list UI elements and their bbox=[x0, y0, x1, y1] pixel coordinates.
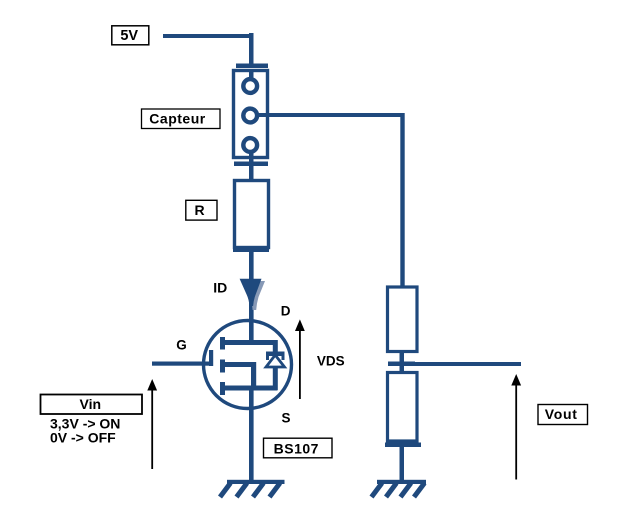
wire drain (resistor to MOSFET) bbox=[249, 250, 254, 345]
svg-text:Vin: Vin bbox=[80, 396, 102, 412]
wire source (MOSFET to ground) bbox=[249, 390, 254, 481]
wire divider to ground bbox=[400, 445, 405, 481]
label Vout bbox=[538, 405, 588, 425]
arrow VDS bbox=[295, 319, 305, 399]
connector pin 2 circle bbox=[243, 109, 257, 123]
resistor R body bbox=[235, 181, 269, 248]
body diode cathode bar bbox=[266, 352, 285, 357]
resistor divider lower body bbox=[388, 373, 418, 442]
label 5V bbox=[112, 26, 149, 45]
current arrow ID shadow bbox=[244, 281, 266, 310]
wire between divider resistors bbox=[400, 351, 405, 372]
connector pin 3 circle bbox=[243, 138, 257, 152]
svg-text:Capteur: Capteur bbox=[149, 111, 205, 127]
svg-text:0V -> OFF: 0V -> OFF bbox=[50, 430, 116, 446]
channel dash body bbox=[220, 360, 225, 373]
svg-text:R: R bbox=[194, 202, 204, 218]
label R bbox=[186, 200, 217, 220]
channel dash source bbox=[220, 382, 225, 395]
resistor divider upper body bbox=[388, 287, 418, 352]
svg-text:VDS: VDS bbox=[317, 354, 345, 369]
svg-text:S: S bbox=[282, 411, 291, 426]
transistor Q1 BS107 (N-MOSFET) bbox=[204, 321, 292, 409]
svg-text:G: G bbox=[176, 338, 187, 353]
label Capteur bbox=[142, 109, 221, 129]
drain internal horizontal bbox=[222, 340, 278, 345]
svg-text:BS107: BS107 bbox=[274, 440, 319, 456]
transistor body circle bbox=[204, 321, 292, 409]
label Vin bbox=[41, 395, 143, 415]
resistor divider lower bottom stub bbox=[385, 443, 421, 448]
svg-text:D: D bbox=[281, 304, 291, 319]
wire pin1 stub bbox=[249, 70, 254, 79]
connector CN1 bottom pin stub bbox=[234, 162, 268, 167]
arrow Vout bbox=[511, 374, 521, 480]
resistor R bottom stub bbox=[233, 248, 269, 253]
wire connector to resistor R bbox=[249, 158, 254, 181]
node Vout junction stub bbox=[388, 362, 415, 367]
body diode triangle bbox=[266, 355, 285, 367]
svg-text:Vout: Vout bbox=[545, 406, 578, 422]
wire sensor output (pin2 to right) bbox=[258, 113, 404, 117]
diode branch vertical (drain side) bbox=[273, 340, 278, 353]
ground (right) bbox=[372, 480, 427, 497]
label BS107 bbox=[264, 438, 333, 458]
connector CN1 top pin stub bbox=[236, 64, 268, 69]
gate bar bbox=[209, 350, 213, 366]
wire pin3 stub bbox=[249, 151, 254, 159]
diode branch vertical (source side) bbox=[273, 366, 278, 390]
source internal horizontal bbox=[222, 386, 278, 391]
svg-text:5V: 5V bbox=[120, 28, 138, 44]
wire right branch vertical bbox=[400, 113, 404, 288]
wire Vout (junction to right) bbox=[401, 362, 521, 366]
body-to-source vertical bbox=[251, 362, 256, 390]
body diode cathode end tabs bbox=[266, 352, 269, 361]
channel dash drain bbox=[220, 337, 225, 350]
current arrow ID bbox=[240, 279, 262, 306]
arrow Vin bbox=[147, 379, 157, 469]
connector CN1 (Capteur, 3-pin) body bbox=[234, 70, 268, 159]
ground (left) bbox=[220, 480, 285, 497]
wire 5V supply (vertical drop) bbox=[249, 33, 254, 65]
wire 5V supply (horizontal) bbox=[163, 34, 253, 38]
svg-text:ID: ID bbox=[213, 280, 227, 296]
connector pin 1 circle bbox=[243, 79, 257, 93]
body internal horizontal bbox=[222, 362, 254, 367]
wire gate lead bbox=[152, 362, 212, 366]
